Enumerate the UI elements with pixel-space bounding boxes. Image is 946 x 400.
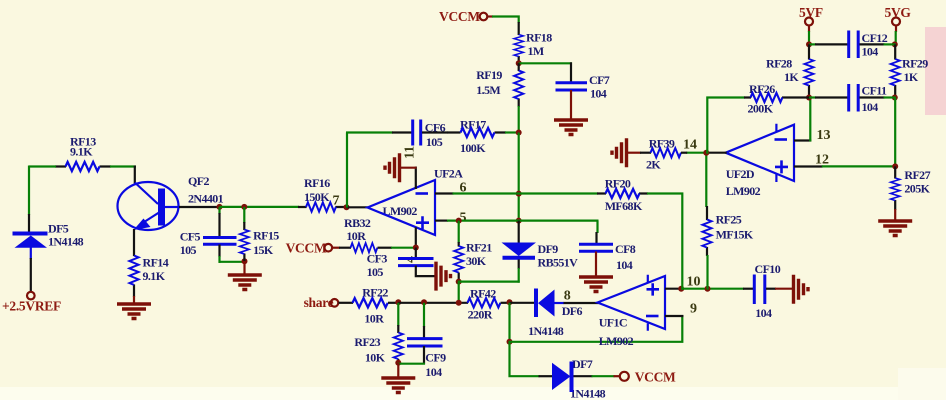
resistor RF18 <box>514 22 552 64</box>
node <box>516 218 522 224</box>
node <box>892 41 898 47</box>
port VCCM top <box>439 9 493 24</box>
ground <box>579 277 613 292</box>
svg-text:8: 8 <box>564 289 571 304</box>
capacitor CF7 <box>556 62 610 119</box>
op-amp UF1C <box>598 275 666 348</box>
svg-text:200K: 200K <box>748 102 774 116</box>
svg-text:RF42: RF42 <box>470 287 496 301</box>
svg-text:13: 13 <box>817 128 831 143</box>
svg-text:CF7: CF7 <box>589 73 610 87</box>
svg-text:104: 104 <box>862 45 879 59</box>
svg-text:RF20: RF20 <box>605 177 631 191</box>
wire <box>29 166 56 216</box>
svg-text:220R: 220R <box>468 308 493 322</box>
ground (CF10, rotated) <box>794 275 809 304</box>
svg-text:UF2D: UF2D <box>726 167 755 181</box>
svg-text:1M: 1M <box>528 44 544 58</box>
diode DF7 <box>539 357 615 400</box>
ground <box>894 209 896 220</box>
wire trunk <box>518 133 520 222</box>
ground <box>397 363 399 377</box>
svg-text:14: 14 <box>683 138 697 153</box>
svg-text:share: share <box>304 295 334 310</box>
wire <box>808 31 810 45</box>
resistor RF21 <box>454 221 492 282</box>
node <box>507 339 513 345</box>
svg-text:30K: 30K <box>466 254 487 268</box>
svg-text:RF22: RF22 <box>362 285 388 299</box>
svg-text:MF68K: MF68K <box>605 199 643 213</box>
node <box>806 95 812 101</box>
node <box>241 204 247 210</box>
svg-text:104: 104 <box>590 87 607 101</box>
resistor RF26 <box>744 82 810 116</box>
svg-text:2N4401: 2N4401 <box>188 192 224 206</box>
resistor RF16 <box>298 176 347 212</box>
svg-text:9.1K: 9.1K <box>143 269 166 283</box>
ground <box>554 120 588 135</box>
port share <box>304 295 339 310</box>
wire <box>219 261 246 263</box>
wire <box>447 221 599 233</box>
wire <box>508 303 510 343</box>
svg-text:15K: 15K <box>253 243 274 257</box>
wire <box>509 342 540 378</box>
wire <box>706 97 745 154</box>
svg-text:11: 11 <box>403 146 418 159</box>
wire <box>133 296 135 303</box>
svg-text:1K: 1K <box>904 70 919 84</box>
node <box>516 60 522 66</box>
svg-text:10K: 10K <box>365 351 386 365</box>
resistor RF22 <box>339 285 400 325</box>
svg-text:DF9: DF9 <box>538 242 559 256</box>
diode DF6 <box>528 289 598 339</box>
svg-text:104: 104 <box>425 365 442 379</box>
svg-text:LM902: LM902 <box>726 184 761 198</box>
wire <box>647 193 683 290</box>
svg-text:VCCM: VCCM <box>439 9 480 24</box>
svg-text:DF5: DF5 <box>48 222 69 236</box>
wire <box>220 206 300 208</box>
resistor RB32 <box>339 216 417 252</box>
svg-text:RF29: RF29 <box>902 57 928 71</box>
transistor QF2 <box>118 174 224 230</box>
svg-text:CF12: CF12 <box>862 31 888 45</box>
svg-text:105: 105 <box>367 265 384 279</box>
svg-text:9: 9 <box>690 302 697 317</box>
port VCCM bottom <box>614 370 677 385</box>
svg-text:CF11: CF11 <box>862 84 888 98</box>
node <box>892 95 898 101</box>
resistor RF23 <box>354 303 403 365</box>
svg-text:105: 105 <box>426 135 443 149</box>
svg-text:RF25: RF25 <box>716 213 742 227</box>
wire <box>519 62 572 64</box>
svg-text:12: 12 <box>815 153 829 168</box>
svg-text:RF23: RF23 <box>354 335 380 349</box>
svg-text:10R: 10R <box>346 229 366 243</box>
svg-text:105: 105 <box>180 243 197 257</box>
wire <box>179 206 220 208</box>
svg-text:CF9: CF9 <box>425 351 446 365</box>
svg-text:10: 10 <box>687 275 701 290</box>
svg-text:7: 7 <box>333 194 340 209</box>
svg-text:QF2: QF2 <box>188 174 209 188</box>
node <box>456 218 462 224</box>
svg-text:104: 104 <box>755 306 772 320</box>
node <box>516 191 522 197</box>
port VCCM mid <box>286 241 340 256</box>
light band bottom <box>0 387 946 400</box>
svg-text:RF16: RF16 <box>304 176 330 190</box>
svg-text:5: 5 <box>460 211 467 226</box>
node <box>678 286 684 292</box>
svg-text:RF14: RF14 <box>143 256 169 270</box>
wire <box>398 302 468 304</box>
ground (RF39, rotated) <box>612 138 627 167</box>
wire <box>346 133 348 208</box>
node <box>516 130 522 136</box>
svg-text:RF15: RF15 <box>253 228 279 242</box>
svg-text:1N4148: 1N4148 <box>48 235 84 249</box>
svg-text:VCCM: VCCM <box>286 241 327 256</box>
node <box>395 360 401 366</box>
node <box>242 258 248 264</box>
node <box>705 286 711 292</box>
svg-text:UF2A: UF2A <box>434 167 463 181</box>
node <box>703 150 709 156</box>
pink sheet corner top right <box>925 27 946 115</box>
svg-text:1K: 1K <box>784 70 799 84</box>
node <box>892 163 898 169</box>
node <box>456 300 462 306</box>
svg-text:9.1K: 9.1K <box>70 145 93 159</box>
node <box>456 279 462 285</box>
wire <box>492 16 520 24</box>
node <box>217 204 223 210</box>
capacitor CF6 <box>346 120 448 150</box>
svg-text:VCCM: VCCM <box>635 370 676 385</box>
diode DF5 <box>13 222 84 292</box>
svg-text:LM902: LM902 <box>599 334 634 348</box>
node <box>507 299 513 305</box>
wire <box>110 165 136 167</box>
capacitor CF8 <box>579 232 636 276</box>
port +2.5VREF <box>2 292 61 314</box>
wire <box>458 282 520 304</box>
svg-text:1N4148: 1N4148 <box>528 324 564 338</box>
resistor RF25 <box>702 153 753 290</box>
wire <box>509 315 684 343</box>
port 5VF <box>799 5 823 32</box>
svg-text:1.5M: 1.5M <box>476 83 500 97</box>
ground (CF3, rotated) <box>436 262 451 291</box>
svg-text:CF8: CF8 <box>615 242 636 256</box>
wire <box>895 31 897 45</box>
resistor RF20 <box>597 177 648 214</box>
svg-text:RF27: RF27 <box>904 168 930 182</box>
wire <box>510 302 536 304</box>
svg-text:RF21: RF21 <box>466 241 492 255</box>
wire <box>681 288 744 290</box>
svg-text:100K: 100K <box>460 141 486 155</box>
wire <box>453 192 599 194</box>
svg-text:RF19: RF19 <box>476 68 502 82</box>
resistor RF39 <box>626 137 687 172</box>
resistor RF13 <box>55 135 111 172</box>
svg-text:MF15K: MF15K <box>716 228 754 242</box>
ground <box>117 304 151 319</box>
svg-text:1N4148: 1N4148 <box>570 386 606 400</box>
svg-text:104: 104 <box>616 258 633 272</box>
diode DF9 <box>502 221 579 283</box>
resistor RF42 <box>468 287 511 322</box>
svg-text:CF5: CF5 <box>180 230 201 244</box>
node <box>421 299 427 305</box>
svg-text:DF6: DF6 <box>562 304 583 318</box>
resistor RF14 <box>129 229 168 297</box>
node <box>344 204 350 210</box>
svg-text:CF3: CF3 <box>367 252 388 266</box>
capacitor CF12 <box>809 31 896 59</box>
wire <box>894 98 896 168</box>
resistor RF19 <box>476 63 523 133</box>
svg-text:DF7: DF7 <box>572 357 593 371</box>
resistor RF27 <box>891 166 931 210</box>
node <box>806 41 812 47</box>
resistor RF29 <box>891 44 929 98</box>
svg-text:+2.5VREF: +2.5VREF <box>2 299 61 314</box>
svg-text:104: 104 <box>862 100 879 114</box>
wire <box>28 214 30 232</box>
resistor RF15 <box>240 207 280 261</box>
resistor RF28 <box>766 44 814 98</box>
capacitor CF11 <box>809 84 896 115</box>
port 5VG <box>885 5 912 32</box>
svg-text:2K: 2K <box>646 158 661 172</box>
op-amp UF2A <box>368 146 464 263</box>
capacitor CF10 <box>743 262 793 320</box>
capacitor CF5 <box>180 207 237 263</box>
svg-text:RF28: RF28 <box>766 57 792 71</box>
capacitor CF9 <box>397 303 446 379</box>
svg-text:CF10: CF10 <box>755 262 781 276</box>
svg-text:RB551V: RB551V <box>538 256 579 270</box>
wire <box>347 206 369 208</box>
op-amp UF2D <box>726 124 794 198</box>
capacitor CF3 <box>367 248 437 280</box>
ground (pin 11) <box>385 153 417 182</box>
node <box>413 245 419 251</box>
svg-text:RB32: RB32 <box>344 216 371 230</box>
wire <box>134 166 136 184</box>
svg-text:10R: 10R <box>364 311 384 325</box>
ground <box>243 261 245 274</box>
resistor RF17 <box>447 118 520 156</box>
svg-text:UF1C: UF1C <box>599 316 627 330</box>
svg-text:RF18: RF18 <box>526 31 552 45</box>
svg-text:205K: 205K <box>904 182 930 196</box>
node <box>395 299 401 305</box>
